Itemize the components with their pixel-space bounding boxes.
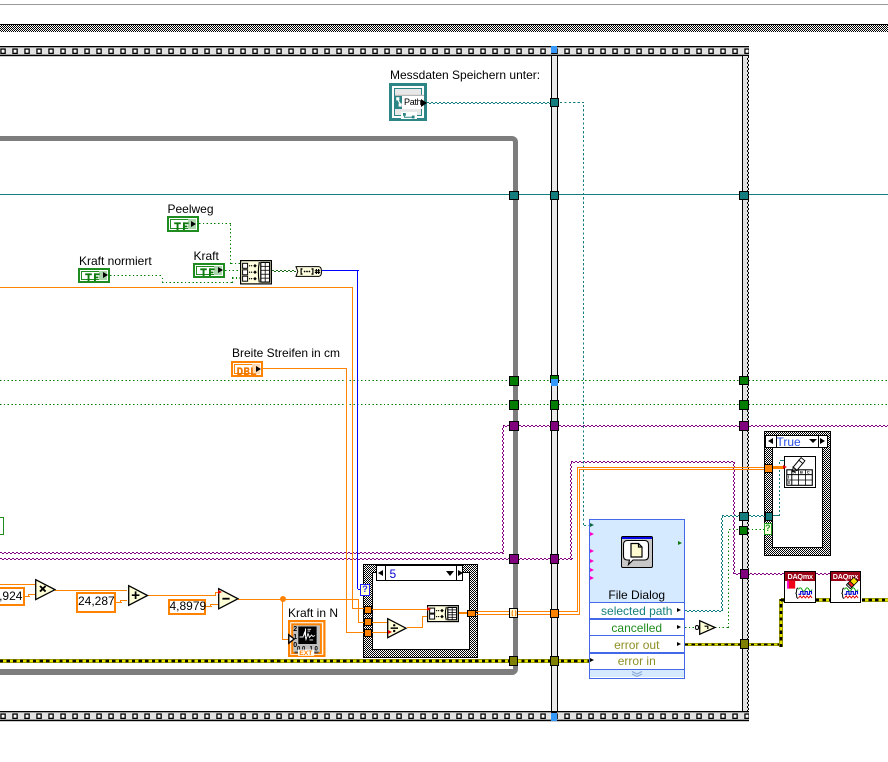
case tunnel 1 (DBL) xyxy=(364,606,372,614)
outer while loop border (dithered bar) xyxy=(0,24,888,32)
wire DBL tunnel2 -> divide top xyxy=(372,622,388,623)
wire boolean into seq tunnel xyxy=(729,529,740,530)
boolean terminal Peelweg xyxy=(167,216,199,232)
tunnel boolean upper (sequence right edge) xyxy=(739,376,749,385)
tunnel boolean (sequence right edge) xyxy=(739,526,748,535)
wire DAQmx task (purple, vertical x734) xyxy=(733,462,735,573)
wire DBL array vertical b xyxy=(579,469,580,614)
tunnel error (while loop edge) xyxy=(509,656,519,666)
wire path (into seq tunnel) xyxy=(722,515,740,517)
wire DBL add out -> subtract xyxy=(148,595,216,596)
tunnel error (frame boundary) xyxy=(550,656,559,666)
svg-text:I: I xyxy=(788,474,789,479)
numeric constant 24,287 xyxy=(76,592,116,613)
wire path (seq tunnel to case tunnel) xyxy=(749,515,766,517)
flat sequence bottom border (film strip) xyxy=(0,711,749,722)
sequence local (blue) overlapping boolean tunnel xyxy=(551,379,558,386)
not gate input circle xyxy=(695,625,700,630)
add function xyxy=(128,585,149,606)
wire DBL into case tunnel 2 xyxy=(358,622,365,623)
wire DBL (long horizontal y287) xyxy=(0,287,353,288)
tunnel DBL array (frame boundary) xyxy=(550,609,559,618)
label Kraft in N xyxy=(288,606,338,620)
svg-text:B: B xyxy=(800,470,803,475)
wire path (teal into File Dialog start path) xyxy=(584,525,590,526)
tunnel teal (frame boundary) xyxy=(550,191,559,201)
wire DBL array horizontal a xyxy=(577,467,765,468)
wire DAQmx task (purple, upper horizontal) xyxy=(503,425,888,427)
case structure CS1 selector terminal "?" xyxy=(360,584,371,596)
wire DBL into Kraft in N chart xyxy=(282,639,289,640)
wire DBL jog up xyxy=(215,593,216,596)
wire DBL into merge node lower input xyxy=(422,616,427,617)
wire boolean cancelled -> Not gate xyxy=(685,627,697,628)
case tunnel 2 (DBL) xyxy=(364,618,372,626)
wire DBL tunnel3 -> divide bottom xyxy=(372,632,389,633)
tunnel boolean upper (frame boundary) xyxy=(550,375,560,384)
coercion dot (build array input) xyxy=(427,607,431,611)
numeric constant 4,8979 xyxy=(168,599,207,616)
tunnel DAQmx task (frame boundary) xyxy=(550,421,559,431)
wire boolean Kraft normiert across xyxy=(162,282,232,283)
tunnel DBL array (True case edge) xyxy=(764,464,773,473)
flat sequence right border xyxy=(742,56,749,711)
tunnel DAQmx task lower (while loop edge) xyxy=(509,554,519,564)
coercion dot (divide lower input) xyxy=(388,630,392,634)
File Dialog output arrow xyxy=(678,541,682,545)
case structure CS2 selector terminal "?" (boolean) xyxy=(764,523,773,536)
build array node U3 xyxy=(427,605,459,622)
tunnel teal (while loop edge) xyxy=(509,191,519,201)
wire DAQmx task (purple, mid horizontal upper) xyxy=(0,552,504,554)
wire error between DAQmx nodes xyxy=(816,598,830,602)
wire path (teal zigzag from path control) xyxy=(427,102,551,104)
loop tunnel indexing glyph xyxy=(511,610,517,617)
wire DBL branch down to chart xyxy=(282,599,283,639)
wire DBL vertical x346 xyxy=(346,369,347,633)
wire path inside case xyxy=(773,515,780,516)
wire DBL jog xyxy=(210,604,211,606)
wire path (vertical x722) xyxy=(721,516,723,612)
wire boolean Peelweg -> merge in1 xyxy=(231,263,241,264)
outer pane divider line xyxy=(0,4,888,5)
wire path (teal dashed after tunnel) xyxy=(560,102,585,103)
case structure CS1 border (dithered) xyxy=(363,564,478,659)
wire boolean Kraft -> merge in2 xyxy=(225,270,241,271)
DAQmx Stop Task node xyxy=(784,571,816,603)
flat sequence frame boundary (vertical channel) xyxy=(551,56,558,711)
wire DBL into case tunnel 1 xyxy=(352,608,365,609)
wire DBL into multiply top input xyxy=(0,584,35,585)
File Dialog row arrow cancelled xyxy=(677,625,681,629)
wire error to right edge xyxy=(862,598,888,602)
tunnel boolean lower (sequence right edge) xyxy=(739,400,749,410)
multiply function xyxy=(35,579,56,600)
wire dynamic data (dark green zigzag) xyxy=(272,270,296,272)
wire DAQmx task (purple, into DAQmx stop) xyxy=(734,573,785,575)
wire DBL subtract out (long) xyxy=(238,599,358,600)
wire DAQmx physical channel (teal, full width) xyxy=(0,194,888,195)
case structure CS2 (True) border xyxy=(764,431,831,556)
wire path (selected path output) xyxy=(685,610,724,612)
wire boolean Kraft normiert down xyxy=(162,276,163,283)
label Messdaten Speichern unter xyxy=(390,68,540,82)
wire boolean Not output xyxy=(715,627,729,628)
wire boolean Kraft normiert -> merge in3 xyxy=(232,277,241,278)
not function xyxy=(699,620,716,635)
chart indicator terminal Kraft in N xyxy=(288,620,326,657)
Write Delimited Spreadsheet VI xyxy=(784,456,816,488)
tunnel DAQmx task (sequence right edge) xyxy=(739,421,749,431)
File Dialog input arrow xyxy=(590,568,594,572)
wire I32 (blue vertical x357) xyxy=(357,271,358,589)
wire DAQmx task (purple, above File Dialog) xyxy=(571,461,735,463)
wire error in (from left to File Dialog) xyxy=(0,659,590,663)
wire DBL Breite Streifen out xyxy=(263,368,347,369)
tunnel DAQmx task (while loop edge) xyxy=(509,421,519,431)
wire DAQmx task (purple, vertical x571) xyxy=(570,462,572,559)
case tunnel output (DBL array) xyxy=(467,610,475,618)
case tunnel 3 (DBL) xyxy=(364,629,372,637)
label Breite Streifen in cm xyxy=(232,346,340,360)
wire DBL array horizontal b xyxy=(580,469,765,470)
svg-text:C: C xyxy=(807,470,810,475)
wire DBL jog xyxy=(120,600,121,602)
File Dialog row arrow error out xyxy=(677,642,681,646)
wire DBL vertical x358 xyxy=(358,599,359,622)
wire boolean Kraft normiert out xyxy=(110,275,163,276)
File Dialog input arrow xyxy=(590,559,594,563)
svg-text:2: 2 xyxy=(293,626,297,633)
wire path into Write Spreadsheet xyxy=(780,460,785,461)
wire boolean Peelweg -> down xyxy=(199,223,232,224)
label Peelweg xyxy=(168,202,214,216)
File Dialog input arrow xyxy=(590,576,594,580)
wire error into DAQmx stop xyxy=(781,598,785,602)
wire DBL const .924 out xyxy=(24,596,30,597)
tunnel boolean lower (frame boundary) xyxy=(550,400,559,410)
case structure CS1 selector label "5" xyxy=(376,565,463,580)
tunnel boolean lower (while loop edge) xyxy=(509,400,519,410)
wire DBL array (double line b) xyxy=(476,614,580,615)
wire DBL into subtract lower input xyxy=(211,604,218,605)
wire DBL array (double line a) xyxy=(476,611,578,612)
tunnel path (case structure edge) xyxy=(765,512,774,521)
wire DBL into case tunnel 3 xyxy=(346,632,364,633)
tunnel DAQmx task (sequence edge, to DAQmx) xyxy=(740,569,750,579)
wire DBL array merge out -> right tunnel xyxy=(458,612,468,615)
tunnel path (sequence right edge) xyxy=(739,512,749,521)
numeric terminal Breite Streifen in cm (DBL) xyxy=(231,361,263,377)
wire boolean Peelweg vertical xyxy=(230,224,231,264)
wire junction dot xyxy=(280,596,286,602)
wire DBL into subtract top input xyxy=(215,592,218,593)
wire boolean (green dotted, upper) xyxy=(0,380,888,381)
boolean terminal Kraft normiert xyxy=(78,268,110,284)
wire boolean Kraft normiert up-jog xyxy=(232,278,233,283)
array size node U2 xyxy=(295,266,322,277)
wire I32 (stub into case selector) xyxy=(358,589,361,590)
case structure CS1 interior xyxy=(372,572,470,650)
File Dialog express VI xyxy=(589,519,685,679)
wire DAQmx task (purple, vertical x503) xyxy=(502,426,504,554)
wire boolean vertical x728 xyxy=(728,530,729,628)
svg-text:Ξ: Ξ xyxy=(788,480,791,485)
merge signals node U1 xyxy=(240,260,272,285)
case structure CS2 interior xyxy=(772,439,824,549)
wire DBL divide out xyxy=(407,627,423,628)
File Dialog row arrow error in xyxy=(590,658,594,662)
sequence local tunnel (blue, top bar) xyxy=(551,46,558,54)
case structure CS2 selector label "True" xyxy=(765,435,828,448)
File Dialog row arrow selected path xyxy=(677,608,681,612)
chart input arrow xyxy=(288,634,295,644)
File Dialog input arrow xyxy=(590,532,594,536)
subtract function xyxy=(218,588,239,610)
wire DBL const 24,287 out xyxy=(116,602,122,603)
wire I32 (blue horizontal from array-size) xyxy=(322,270,359,271)
File Dialog input arrow (start path) xyxy=(590,523,594,527)
wire error out (File Dialog to corner) xyxy=(685,643,783,647)
boolean terminal Kraft xyxy=(193,263,225,279)
wire DBL array vertical a xyxy=(577,467,578,612)
wire DBL into multiply lower input xyxy=(29,594,35,595)
wire DBL multiply out -> add xyxy=(55,590,127,591)
inner while loop border (gray) xyxy=(0,136,518,676)
flat sequence top border (film strip) xyxy=(0,46,749,57)
wire DBL const 4,8979 out xyxy=(206,606,212,607)
svg-text:EXT: EXT xyxy=(299,650,313,657)
tunnel error (sequence right edge) xyxy=(740,639,749,649)
sequence local tunnel (blue, bottom bar) xyxy=(551,712,558,720)
tunnel boolean upper (while loop edge) xyxy=(509,376,519,386)
File Dialog input arrow xyxy=(590,549,594,553)
boolean terminal (partially off-screen) xyxy=(0,517,4,536)
tunnel path wire (frame boundary) xyxy=(550,98,559,108)
wire DBL array into Write Spreadsheet xyxy=(773,466,785,469)
tunnel teal (sequence right edge) xyxy=(739,191,749,201)
wire boolean tunnel -> case selector terminal xyxy=(748,529,764,530)
wire DBL jog xyxy=(28,594,29,596)
path control Messdaten Speichern unter xyxy=(389,83,427,121)
wire error vertical x781 xyxy=(779,599,783,647)
coercion dot (subtract top input) xyxy=(218,590,222,594)
wire path (teal dashed vertical x584) xyxy=(583,103,584,526)
label Kraft xyxy=(194,249,219,263)
wire boolean (green dotted, lower) xyxy=(0,404,888,405)
wire DBL into add lower input xyxy=(121,600,127,601)
label Kraft normiert xyxy=(79,254,152,268)
wire path vertical inside case xyxy=(779,460,780,516)
flat sequence right border zigzag edge xyxy=(747,56,749,711)
numeric constant 0,924 xyxy=(0,587,25,607)
loop tunnel (indexing) on while loop edge xyxy=(509,608,519,617)
divide function xyxy=(387,618,407,638)
DAQmx Clear Task node xyxy=(830,571,862,603)
coercion dot (Write Spreadsheet input) xyxy=(783,465,787,469)
wire DBL vertical x352 xyxy=(352,287,353,609)
File Dialog icon (3D page box) xyxy=(621,536,653,568)
tunnel DAQmx task lower (frame boundary) xyxy=(550,554,559,564)
wire DAQmx task (purple, mid horizontal lower) xyxy=(0,558,573,560)
wire DAQmx task (purple, between DAQmx nodes) xyxy=(816,573,830,575)
wire DBL up jog xyxy=(422,617,423,628)
wire DBL tunnel1 -> merge node xyxy=(372,609,428,610)
